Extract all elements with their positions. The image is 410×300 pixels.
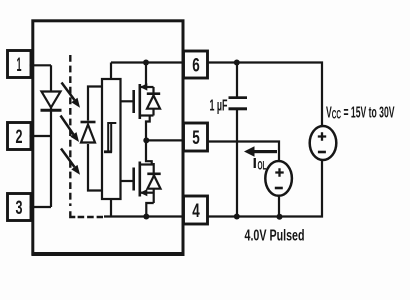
svg-text:I: I: [253, 155, 258, 172]
svg-text:5: 5: [192, 128, 200, 149]
svg-text:6: 6: [192, 56, 200, 77]
svg-text:3: 3: [16, 198, 23, 219]
svg-text:2: 2: [16, 127, 23, 148]
svg-text:4: 4: [192, 201, 200, 222]
svg-text:OL: OL: [258, 159, 267, 173]
svg-text:1 µF: 1 µF: [210, 97, 228, 114]
svg-text:4.0V Pulsed: 4.0V Pulsed: [245, 228, 305, 245]
svg-text:1: 1: [17, 55, 22, 76]
svg-text:VCC = 15V to 30V: VCC = 15V to 30V: [326, 105, 395, 122]
